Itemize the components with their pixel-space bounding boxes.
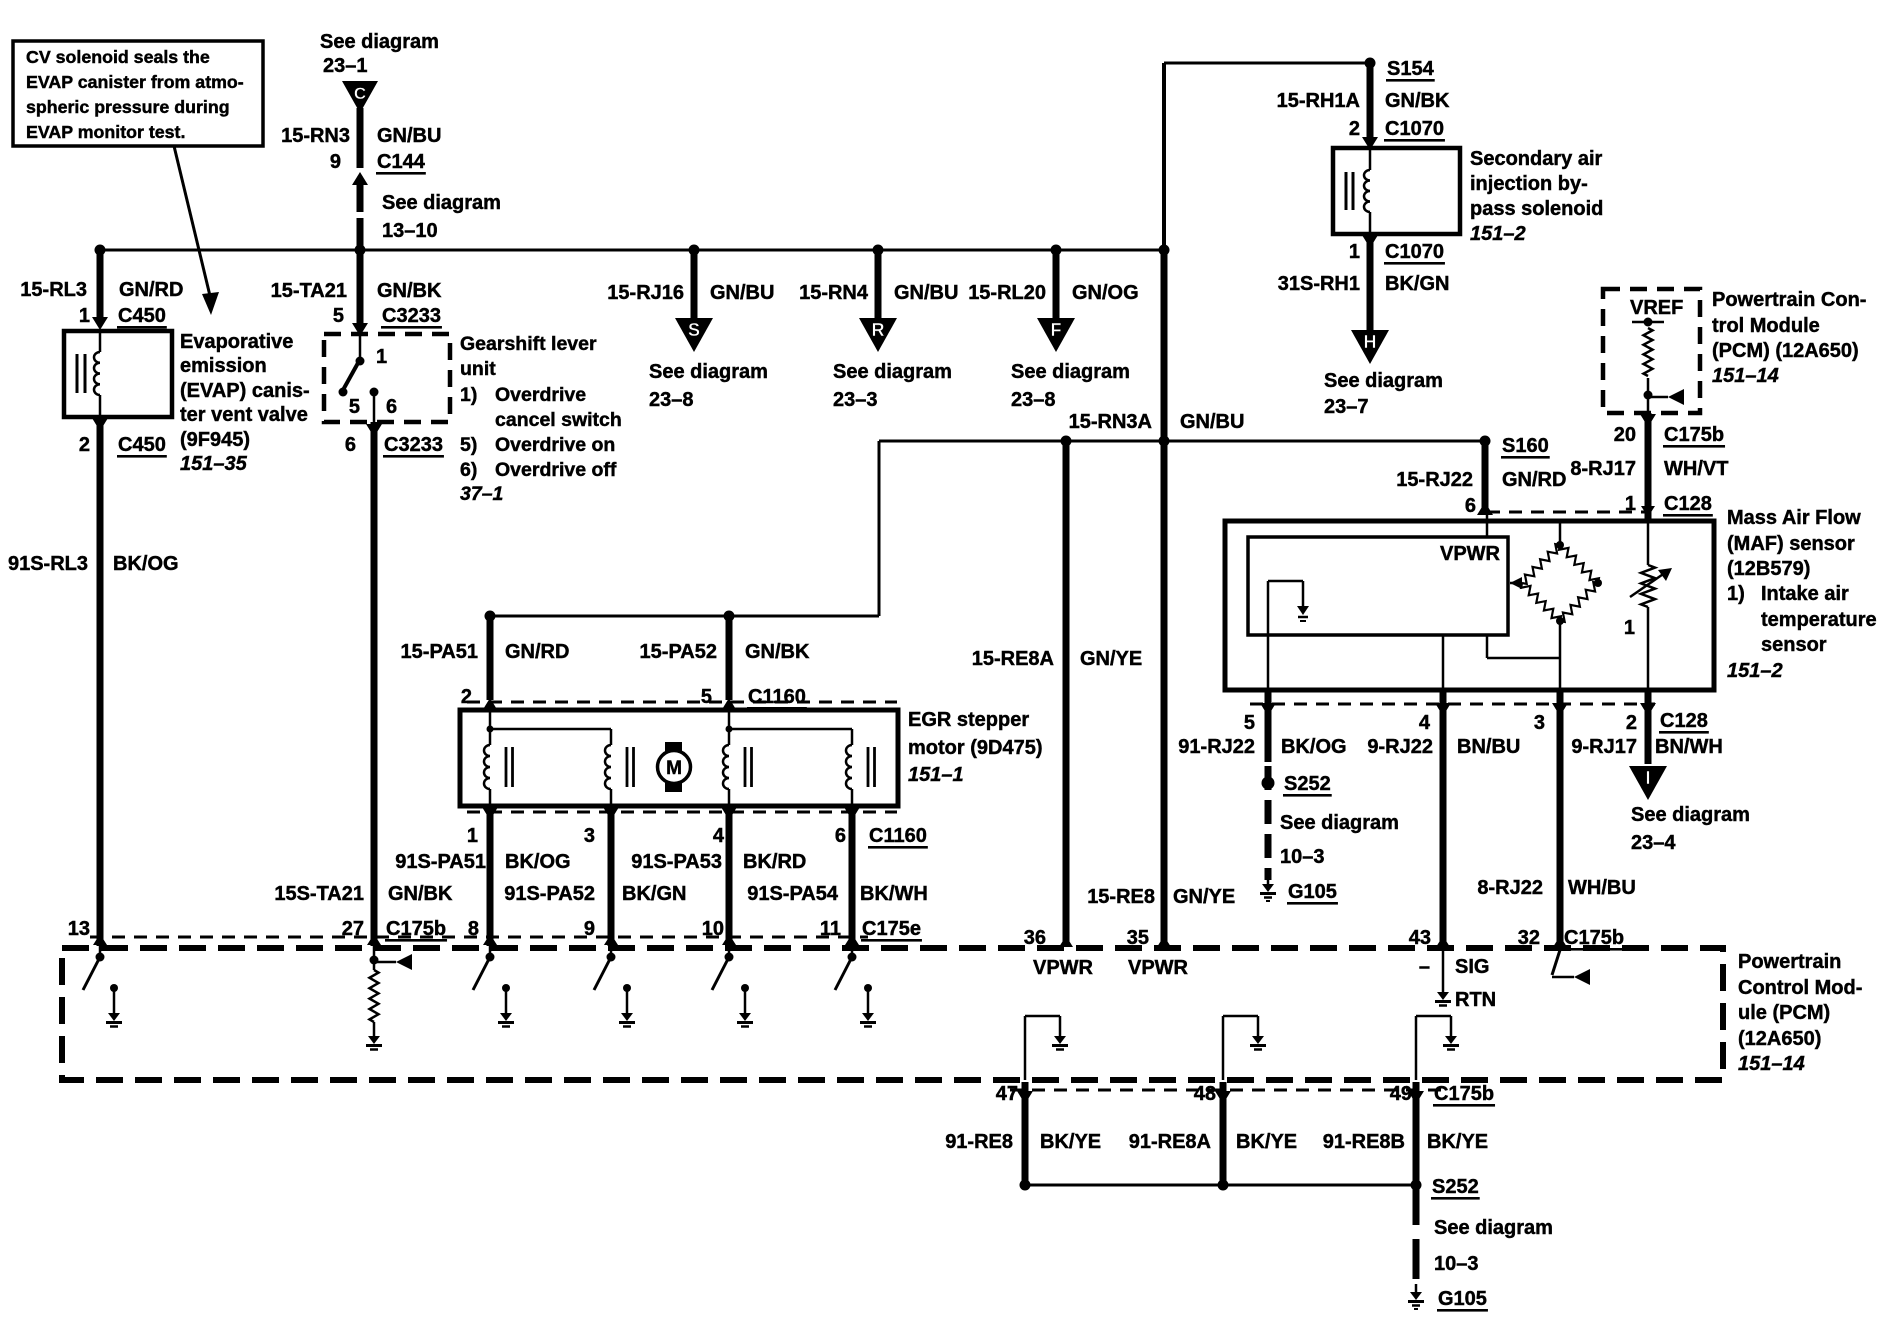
off-page connector F (arrow) [1037, 318, 1075, 352]
wire color labels row 2 [274, 883, 927, 905]
svg-text:BK/GN: BK/GN [1385, 273, 1449, 295]
svg-text:emission: emission [180, 355, 267, 377]
svg-text:37–1: 37–1 [460, 483, 503, 505]
gearshift lever unit box (dashed) [324, 334, 450, 422]
svg-text:EVAP canister from atmo-: EVAP canister from atmo- [26, 72, 244, 92]
svg-text:GN/BU: GN/BU [377, 125, 441, 147]
note box: CV solenoid note [13, 41, 263, 146]
svg-text:BK/YE: BK/YE [1236, 1131, 1297, 1153]
svg-text:3: 3 [1534, 712, 1545, 734]
junction dots second bus [485, 436, 1170, 622]
ground G105 (MAF pin5) [1260, 876, 1338, 905]
svg-text:151–14: 151–14 [1738, 1053, 1805, 1075]
solenoid description text [1470, 148, 1603, 245]
see diagram 23-7 text [1324, 370, 1443, 418]
svg-text:injection by-: injection by- [1470, 173, 1588, 195]
svg-text:8-RJ22: 8-RJ22 [1477, 877, 1543, 899]
label 15-RE8 GN/YE [1087, 886, 1235, 908]
PCM VREF box (dashed) [1603, 289, 1700, 413]
svg-text:23–4: 23–4 [1631, 832, 1676, 854]
svg-text:BK/OG: BK/OG [113, 553, 179, 575]
svg-text:BN/WH: BN/WH [1655, 736, 1723, 758]
label 15-RN3A GN/BU [1069, 411, 1245, 433]
svg-text:G105: G105 [1438, 1288, 1487, 1310]
svg-text:unit: unit [460, 358, 496, 380]
svg-text:4: 4 [713, 825, 725, 847]
svg-text:23–7: 23–7 [1324, 396, 1369, 418]
svg-text:BK/YE: BK/YE [1040, 1131, 1101, 1153]
MAF bottom pin labels [1244, 710, 1709, 734]
svg-text:WH/VT: WH/VT [1664, 458, 1728, 480]
svg-text:6: 6 [345, 434, 356, 456]
svg-text:13–10: 13–10 [382, 220, 438, 242]
pin6 wire into inner box [1486, 513, 1489, 537]
pin 47 wire 91-RE8 [1017, 1082, 1033, 1185]
svg-text:48: 48 [1194, 1083, 1216, 1105]
label 15-PA51 GN/RD [401, 641, 570, 663]
svg-text:15-RN3: 15-RN3 [281, 125, 350, 147]
svg-text:EGR stepper: EGR stepper [908, 709, 1029, 731]
svg-text:See diagram: See diagram [1631, 804, 1750, 826]
wire 15S-TA21 down to PCM [371, 422, 378, 946]
EGR pin 1 wire 91S-PA51 [482, 806, 498, 946]
svg-text:pass solenoid: pass solenoid [1470, 198, 1603, 220]
svg-text:15-RN3A: 15-RN3A [1069, 411, 1152, 433]
svg-text:1: 1 [376, 346, 387, 368]
label 8-RJ22 WH/BU [1477, 877, 1635, 899]
svg-text:5: 5 [1244, 712, 1255, 734]
svg-text:R: R [872, 320, 885, 340]
PCM output elbow ground at x=1416 [1416, 1016, 1459, 1080]
wire 15-TA21 [352, 250, 368, 336]
pin 48 wire 91-RE8A [1215, 1082, 1231, 1185]
label 15-RN4 GN/BU [799, 282, 958, 304]
svg-text:31S-RH1: 31S-RH1 [1278, 273, 1360, 295]
pin4 wire inside [1442, 635, 1445, 690]
svg-text:1): 1) [1727, 583, 1745, 605]
svg-text:(EVAP) canis-: (EVAP) canis- [180, 380, 310, 402]
see diagram 13-10 text [382, 192, 501, 242]
svg-text:BK/OG: BK/OG [1281, 736, 1347, 758]
label 15-RL20 GN/OG [968, 282, 1138, 304]
svg-text:GN/RD: GN/RD [119, 279, 183, 301]
leader arrow from note box to EVAP wire [174, 146, 219, 315]
svg-text:C175b: C175b [1434, 1083, 1494, 1105]
connector C450 pin 1 [79, 305, 167, 329]
svg-text:Powertrain Con-: Powertrain Con- [1712, 289, 1866, 311]
svg-text:5: 5 [701, 686, 712, 708]
svg-text:2: 2 [461, 686, 472, 708]
svg-text:91-RE8B: 91-RE8B [1323, 1131, 1405, 1153]
MAF pin 4 wire 9-RJ22 [1435, 690, 1451, 947]
splice S154 [1365, 58, 1435, 82]
see diagram 23-1 text [320, 31, 439, 77]
EGR motor symbol M [658, 742, 691, 792]
svg-text:Intake air: Intake air [1761, 583, 1849, 605]
svg-text:S252: S252 [1284, 773, 1331, 795]
svg-text:15-PA51: 15-PA51 [401, 641, 478, 663]
svg-text:CV solenoid seals the: CV solenoid seals the [26, 47, 210, 67]
MAF inner electronics box [1248, 537, 1508, 635]
svg-text:GN/BU: GN/BU [710, 282, 774, 304]
svg-text:6: 6 [386, 396, 397, 418]
PCM pin number row [68, 918, 922, 942]
svg-text:15-RL20: 15-RL20 [968, 282, 1046, 304]
svg-text:23–8: 23–8 [1011, 389, 1056, 411]
gearshift description text [460, 333, 622, 505]
svg-text:91S-RL3: 91S-RL3 [8, 553, 88, 575]
svg-text:15-RH1A: 15-RH1A [1277, 90, 1360, 112]
label 15-PA52 GN/BK [640, 641, 810, 663]
svg-text:15-RJ16: 15-RJ16 [607, 282, 684, 304]
svg-text:15-RJ22: 15-RJ22 [1396, 469, 1473, 491]
svg-text:GN/YE: GN/YE [1173, 886, 1235, 908]
MAF pin 5 wire 91-RJ22 (dashed to S252) [1260, 690, 1276, 880]
EGR pin 3 wire 91S-PA52 [603, 806, 619, 946]
label 15-RE8A GN/YE [972, 648, 1143, 670]
svg-text:GN/OG: GN/OG [1072, 282, 1139, 304]
svg-text:15S-TA21: 15S-TA21 [274, 883, 364, 905]
svg-text:8: 8 [468, 918, 479, 940]
svg-text:H: H [1364, 332, 1377, 352]
svg-text:See diagram: See diagram [320, 31, 439, 53]
svg-text:GN/BK: GN/BK [1385, 90, 1450, 112]
wire to G105 (dashed) [1413, 1185, 1420, 1288]
wire: main power bus [100, 249, 1164, 252]
arrowhead at C128 pin 1 [1641, 506, 1655, 517]
svg-text:EVAP monitor test.: EVAP monitor test. [26, 122, 185, 142]
svg-text:BK/WH: BK/WH [860, 883, 928, 905]
EGR pin 6 wire 91S-PA54 [844, 806, 860, 946]
PCM pin switch and ground at x=611 [594, 953, 635, 1027]
wire 15-RJ16 [691, 250, 698, 320]
off-page connector I (arrow) [1629, 766, 1667, 800]
PCM pin switch and ground at x=490 [473, 953, 514, 1027]
svg-text:cancel switch: cancel switch [495, 409, 622, 431]
connector C175b pin 20 [1614, 424, 1725, 448]
EGR coil windings left pair [484, 712, 633, 806]
svg-text:47: 47 [996, 1083, 1018, 1105]
connector C144 pin 9 [330, 151, 426, 175]
svg-text:23–3: 23–3 [833, 389, 878, 411]
see diagram 23–8 text [1011, 361, 1130, 411]
svg-text:20: 20 [1614, 424, 1636, 446]
svg-text:23–8: 23–8 [649, 389, 694, 411]
connector C450 pin 2 [79, 418, 167, 458]
svg-text:ule (PCM): ule (PCM) [1738, 1002, 1830, 1024]
svg-text:C3233: C3233 [382, 305, 441, 327]
svg-text:C450: C450 [118, 305, 166, 327]
svg-text:GN/YE: GN/YE [1080, 648, 1142, 670]
svg-text:(PCM) (12A650): (PCM) (12A650) [1712, 340, 1859, 362]
EGR description text [908, 709, 1042, 786]
svg-text:GN/BU: GN/BU [1180, 411, 1244, 433]
VREF internal resistor [1632, 318, 1684, 412]
svg-text:trol Module: trol Module [1712, 315, 1820, 337]
svg-text:9: 9 [330, 151, 341, 173]
svg-text:S154: S154 [1387, 58, 1435, 80]
wire 15-RE8A [1063, 441, 1070, 947]
svg-text:C1160: C1160 [748, 686, 806, 708]
EVAP canister vent valve box [64, 331, 172, 417]
svg-text:RTN: RTN [1455, 989, 1496, 1011]
wire 15-RL3 [92, 250, 108, 330]
connector C1160 dashed line top [467, 701, 897, 704]
bridge to pin3 and inner box link [1487, 621, 1560, 690]
svg-text:Evaporative: Evaporative [180, 331, 293, 353]
svg-text:F: F [1051, 320, 1062, 340]
svg-text:15-TA21: 15-TA21 [271, 280, 347, 302]
svg-text:27: 27 [342, 918, 364, 940]
svg-text:C175b: C175b [1664, 424, 1724, 446]
see diagram 23–3 text [833, 361, 952, 411]
svg-text:(MAF) sensor: (MAF) sensor [1727, 533, 1855, 555]
svg-text:GN/BK: GN/BK [377, 280, 442, 302]
wire 15-RJ22 [1477, 441, 1493, 515]
PCM VPWR labels [1033, 957, 1189, 979]
splice S252 label [1431, 1176, 1480, 1200]
svg-text:6: 6 [835, 825, 846, 847]
svg-text:See diagram: See diagram [833, 361, 952, 383]
PCM output elbow ground at x=1025 [1025, 1016, 1068, 1080]
PCM pin labels right [1024, 927, 1625, 951]
connector C1160 dashed line bottom [467, 811, 897, 814]
svg-text:91S-PA51: 91S-PA51 [395, 851, 486, 873]
PCM pin 32 output driver [1552, 950, 1590, 985]
connector line C175b bottom (thin dashed) [1010, 1089, 1450, 1092]
label 15-RJ22 GN/RD [1396, 469, 1566, 491]
svg-text:C128: C128 [1664, 493, 1712, 515]
svg-text:C128: C128 [1660, 710, 1708, 732]
svg-text:10: 10 [702, 918, 724, 940]
off-page connector H (arrow) [1351, 330, 1389, 364]
svg-text:BN/BU: BN/BU [1457, 736, 1520, 758]
label 15-TA21 GN/BK [271, 280, 442, 302]
svg-text:VPWR: VPWR [1128, 957, 1189, 979]
see diagram 23–8 text [649, 361, 768, 411]
svg-text:151–14: 151–14 [1712, 365, 1779, 387]
label 15-RH1A GN/BK [1277, 90, 1450, 112]
splice bus to S252 [1020, 1180, 1422, 1191]
PCM text beside VREF [1712, 289, 1866, 387]
splice S252 (MAF pin5 branch) [1262, 773, 1332, 797]
svg-text:15-RE8A: 15-RE8A [972, 648, 1054, 670]
svg-text:9: 9 [584, 918, 595, 940]
svg-text:GN/RD: GN/RD [1502, 469, 1566, 491]
svg-text:(9F945): (9F945) [180, 429, 250, 451]
connector line C175b/C175e (thin dashed) [90, 936, 868, 939]
svg-text:8-RJ17: 8-RJ17 [1570, 458, 1636, 480]
svg-text:spheric pressure during: spheric pressure during [26, 97, 230, 117]
PCM pin 13 switch and ground [83, 953, 122, 1027]
svg-text:C1160: C1160 [869, 825, 927, 847]
svg-text:G105: G105 [1288, 881, 1337, 903]
svg-text:151–2: 151–2 [1727, 660, 1783, 682]
connector C128 pin 1 [1625, 493, 1713, 517]
svg-text:2: 2 [79, 434, 90, 456]
svg-text:–: – [1419, 956, 1430, 978]
pin 49 wire 91-RE8B [1408, 1082, 1424, 1185]
svg-text:9-RJ17: 9-RJ17 [1571, 736, 1637, 758]
label 8-RJ17 WH/VT [1570, 458, 1728, 480]
svg-text:91S-PA53: 91S-PA53 [631, 851, 722, 873]
wire color labels row 1 [395, 851, 806, 873]
see diagram 23-4 text [1631, 804, 1750, 854]
inner ground circuit [1268, 581, 1309, 690]
svg-text:6): 6) [460, 459, 477, 481]
svg-text:Control Mod-: Control Mod- [1738, 977, 1862, 999]
svg-text:S252: S252 [1432, 1176, 1479, 1198]
svg-text:BK/RD: BK/RD [743, 851, 806, 873]
svg-text:15-PA52: 15-PA52 [640, 641, 717, 663]
EVAP description text [180, 331, 310, 475]
svg-text:(12A650): (12A650) [1738, 1028, 1821, 1050]
label 91S-RL3 BK/OG [8, 553, 179, 575]
svg-text:C175b: C175b [386, 918, 446, 940]
see diagram 10-3 text (S252) [1280, 812, 1399, 868]
secondary air injection bypass solenoid box [1333, 148, 1460, 234]
wire 15-PA52 [721, 616, 737, 711]
wire 15-RN3 [357, 108, 364, 168]
bottom pin labels [996, 1083, 1495, 1107]
svg-text:3: 3 [584, 825, 595, 847]
label 15-RL3 GN/RD [20, 279, 183, 301]
connector C128 dashed line [1487, 511, 1650, 514]
svg-text:15-RN4: 15-RN4 [799, 282, 869, 304]
off-page connector S (arrow) [675, 318, 713, 352]
connector C128 dashed line bottom [1250, 703, 1655, 706]
PCM output elbow ground at x=1223 [1223, 1016, 1266, 1080]
wire: second bus (15-RN3A net) [490, 440, 1485, 618]
svg-text:C1070: C1070 [1385, 241, 1444, 263]
svg-text:BK/OG: BK/OG [505, 851, 571, 873]
connector C1160 pin 5 [701, 686, 807, 710]
svg-text:151–1: 151–1 [908, 764, 964, 786]
MAF pin 2 wire 9-RJ17 [1640, 690, 1656, 764]
svg-text:GN/BU: GN/BU [894, 282, 958, 304]
svg-text:1): 1) [460, 384, 477, 406]
connector C1070 pin 1 [1349, 235, 1445, 265]
see diagram 10-3 text (bottom) [1434, 1217, 1553, 1275]
off-page connector C (triangle) [342, 81, 378, 113]
connector C1070 pin 2 [1349, 118, 1445, 142]
overdrive cancel switch inside [339, 336, 398, 422]
PCM pin 43 SIG RTN ground [1419, 948, 1496, 1011]
svg-text:VREF: VREF [1630, 297, 1683, 319]
svg-text:S: S [688, 320, 700, 340]
wire 91S-RL3 [97, 417, 104, 946]
label 31S-RH1 BK/GN [1278, 273, 1450, 295]
svg-text:C450: C450 [118, 434, 166, 456]
svg-text:ter vent valve: ter vent valve [180, 404, 308, 426]
wire 15-RL20 [1053, 250, 1060, 320]
thin stubs through PCM border [100, 938, 852, 957]
svg-text:Mass Air Flow: Mass Air Flow [1727, 507, 1861, 529]
hot wire bridge [1510, 523, 1602, 625]
svg-text:SIG: SIG [1455, 956, 1489, 978]
svg-text:5: 5 [333, 305, 344, 327]
svg-text:13: 13 [68, 918, 90, 940]
IAT thermistor [1624, 523, 1672, 690]
svg-text:23–1: 23–1 [323, 55, 368, 77]
svg-text:1: 1 [79, 305, 90, 327]
svg-text:M: M [666, 758, 682, 779]
svg-text:2: 2 [1626, 712, 1637, 734]
MAF sensor box [1225, 521, 1714, 690]
wire below C144 (dashed) with up arrow [352, 172, 368, 246]
svg-text:Overdrive: Overdrive [495, 384, 586, 406]
svg-text:6: 6 [1465, 495, 1476, 517]
connector C1160 pin 2 [461, 686, 472, 708]
MAF wire labels [1178, 736, 1722, 758]
svg-text:9-RJ22: 9-RJ22 [1367, 736, 1433, 758]
PCM pin 27 resistor to ground [366, 954, 412, 1050]
wire 15-RE8 [1161, 250, 1168, 947]
svg-text:4: 4 [1419, 712, 1431, 734]
wire 15-PA51 [482, 616, 498, 711]
ground G105 (bottom) [1408, 1284, 1488, 1312]
svg-text:(12B579): (12B579) [1727, 558, 1810, 580]
EGR bottom pin labels [467, 825, 928, 849]
connector C3233 pin 6 [345, 424, 444, 458]
svg-text:Powertrain: Powertrain [1738, 951, 1841, 973]
svg-text:See diagram: See diagram [1324, 370, 1443, 392]
svg-text:I: I [1645, 768, 1650, 788]
svg-text:S160: S160 [1502, 435, 1549, 457]
PCM box (dashed) [62, 948, 1723, 1080]
svg-text:11: 11 [820, 918, 841, 940]
svg-text:C3233: C3233 [384, 434, 443, 456]
EGR stepper motor box [460, 710, 898, 806]
wire 31S-RH1 [1367, 234, 1374, 330]
MAF pin 3 wire 8-RJ22 [1552, 690, 1568, 947]
svg-text:Secondary air: Secondary air [1470, 148, 1603, 170]
svg-text:91-RJ22: 91-RJ22 [1178, 736, 1255, 758]
svg-text:10–3: 10–3 [1434, 1253, 1479, 1275]
VREF label [1630, 297, 1683, 319]
svg-text:5: 5 [349, 396, 360, 418]
svg-text:49: 49 [1390, 1083, 1412, 1105]
svg-text:BK/GN: BK/GN [622, 883, 686, 905]
svg-text:Overdrive on: Overdrive on [495, 434, 615, 456]
svg-text:See diagram: See diagram [1011, 361, 1130, 383]
svg-text:91-RE8A: 91-RE8A [1129, 1131, 1211, 1153]
svg-text:1: 1 [467, 825, 478, 847]
svg-text:GN/BK: GN/BK [745, 641, 810, 663]
arrowheads at PCM entry pins [93, 934, 1567, 947]
svg-text:1: 1 [1349, 241, 1360, 263]
splice S160 [1480, 435, 1550, 459]
svg-text:C144: C144 [377, 151, 426, 173]
svg-text:2: 2 [1349, 118, 1360, 140]
svg-text:5): 5) [460, 434, 477, 456]
svg-text:151–35: 151–35 [180, 453, 248, 475]
label 15-RN3 GN/BU [281, 125, 441, 147]
svg-text:91S-PA52: 91S-PA52 [504, 883, 595, 905]
PCM description text [1738, 951, 1862, 1075]
wire from bus up to S154 line [1164, 62, 1370, 251]
svg-text:C: C [354, 84, 366, 103]
off-page connector R (arrow) [859, 318, 897, 352]
svg-text:VPWR: VPWR [1033, 957, 1094, 979]
connector C3233 pin 5 [333, 305, 442, 329]
svg-text:151–2: 151–2 [1470, 223, 1526, 245]
junction dots on bus [95, 245, 1170, 256]
label 15-RJ16 GN/BU [607, 282, 774, 304]
svg-text:BK/YE: BK/YE [1427, 1131, 1488, 1153]
wire 15-RN4 [875, 250, 882, 320]
svg-text:sensor: sensor [1761, 634, 1827, 656]
